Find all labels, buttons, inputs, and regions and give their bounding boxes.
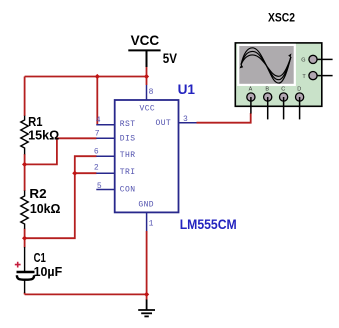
svg-text:LM555CM: LM555CM: [180, 216, 237, 232]
svg-text:7: 7: [95, 129, 100, 138]
scope terminal T: [309, 72, 317, 80]
junction TRI tee node: [72, 171, 77, 176]
pin 6 stub THR: [96, 155, 114, 157]
wire pin 1 down to ground junction: [146, 231, 148, 294]
svg-text:TRI: TRI: [120, 168, 136, 177]
op-amp U1 LM555CM IC body: [115, 100, 179, 212]
wire junction right and up to THR pin 6: [25, 156, 97, 238]
oscilloscope sine trace inner: [241, 55, 291, 76]
scope T line: [317, 75, 332, 77]
svg-text:VCC: VCC: [140, 105, 156, 114]
scope C stub: [283, 97, 285, 119]
wire top horizontal VCC rail: [25, 76, 147, 78]
svg-text:10kΩ: 10kΩ: [30, 202, 61, 216]
svg-text:CON: CON: [120, 185, 136, 194]
svg-text:XSC2: XSC2: [268, 11, 295, 25]
pin 5 stub CON: [96, 189, 114, 191]
svg-text:15kΩ: 15kΩ: [28, 128, 59, 142]
svg-text:2: 2: [94, 164, 99, 173]
pin 4 stub RST: [96, 124, 114, 126]
scope D stub: [299, 97, 301, 119]
wire left vertical to R1 top: [24, 77, 26, 117]
pin 7 stub DIS: [96, 137, 114, 139]
pin 1 stub GND: [146, 212, 148, 231]
svg-text:5V: 5V: [163, 50, 178, 66]
junction at VCC stem: [144, 74, 149, 79]
svg-text:R1: R1: [28, 115, 42, 129]
svg-text:THR: THR: [120, 151, 136, 160]
svg-text:D: D: [297, 87, 301, 93]
C1 polarity plus sign: [15, 262, 21, 268]
wire C1 bottom to bottom rail: [24, 293, 26, 295]
svg-text:A: A: [249, 87, 253, 93]
scope terminal G: [309, 55, 317, 63]
wire OUT pin 3 to scope terminal A: [197, 113, 251, 123]
svg-text:8: 8: [149, 88, 154, 97]
wire junction down to R2 top: [24, 164, 26, 191]
wire junction to DIS pin 7: [25, 138, 97, 164]
svg-text:GND: GND: [138, 200, 154, 209]
oscilloscope sine trace outer: [241, 48, 291, 83]
svg-text:VCC: VCC: [131, 32, 160, 48]
svg-text:C: C: [281, 87, 285, 93]
svg-text:1: 1: [149, 219, 154, 228]
scope B stub: [267, 97, 269, 119]
sine right arrow tip: [288, 53, 291, 57]
svg-text:3: 3: [183, 115, 188, 124]
resistor R2: [21, 191, 28, 229]
ground: [138, 300, 155, 317]
scope A stub: [250, 97, 252, 114]
svg-text:G: G: [301, 58, 305, 64]
scope terminal D: [296, 93, 304, 101]
wire VCC stem to pin 8: [146, 67, 148, 86]
junction ground tee node: [144, 292, 149, 297]
sine left arrow tip: [240, 64, 244, 68]
svg-text:RST: RST: [120, 120, 136, 129]
oscilloscope XSC2 body: [235, 43, 321, 106]
svg-text:R2: R2: [29, 187, 46, 201]
svg-text:4: 4: [96, 116, 101, 125]
capacitor C1 polarized: [17, 247, 35, 293]
wire junction to ground symbol: [146, 294, 148, 300]
VCC power symbol: [128, 50, 160, 67]
pin 8 stub VCC: [146, 85, 148, 100]
wire pin 4 drop from rail: [96, 77, 98, 125]
svg-text:OUT: OUT: [156, 119, 172, 128]
svg-text:C1: C1: [34, 251, 46, 265]
svg-text:DIS: DIS: [120, 134, 136, 143]
resistor R1: [21, 116, 28, 155]
wire junction down to C1 top: [24, 238, 26, 247]
junction at VCC rail and pin4 drop: [95, 74, 100, 79]
pin 3 stub OUT: [179, 122, 197, 124]
junction R2 bottom node: [22, 236, 27, 241]
wire bottom horizontal rail: [25, 293, 147, 295]
pin 2 stub TRI: [96, 172, 114, 174]
scope terminal A: [247, 93, 255, 101]
scope terminal C: [280, 93, 288, 101]
wire R1 bottom to junction: [24, 154, 26, 164]
oscilloscope sine trace middle: [241, 51, 291, 79]
scope terminal B: [264, 93, 272, 101]
svg-text:5: 5: [97, 182, 102, 191]
svg-text:6: 6: [94, 147, 99, 156]
oscilloscope screen: [238, 45, 295, 85]
wire tee to TRI pin 2: [75, 172, 97, 174]
scope G line: [317, 58, 332, 60]
svg-text:U1: U1: [178, 81, 196, 97]
svg-text:10µF: 10µF: [34, 265, 63, 279]
svg-text:B: B: [265, 87, 269, 93]
wire R2 bottom to junction: [24, 229, 26, 239]
junction R1 bottom node: [22, 162, 27, 167]
